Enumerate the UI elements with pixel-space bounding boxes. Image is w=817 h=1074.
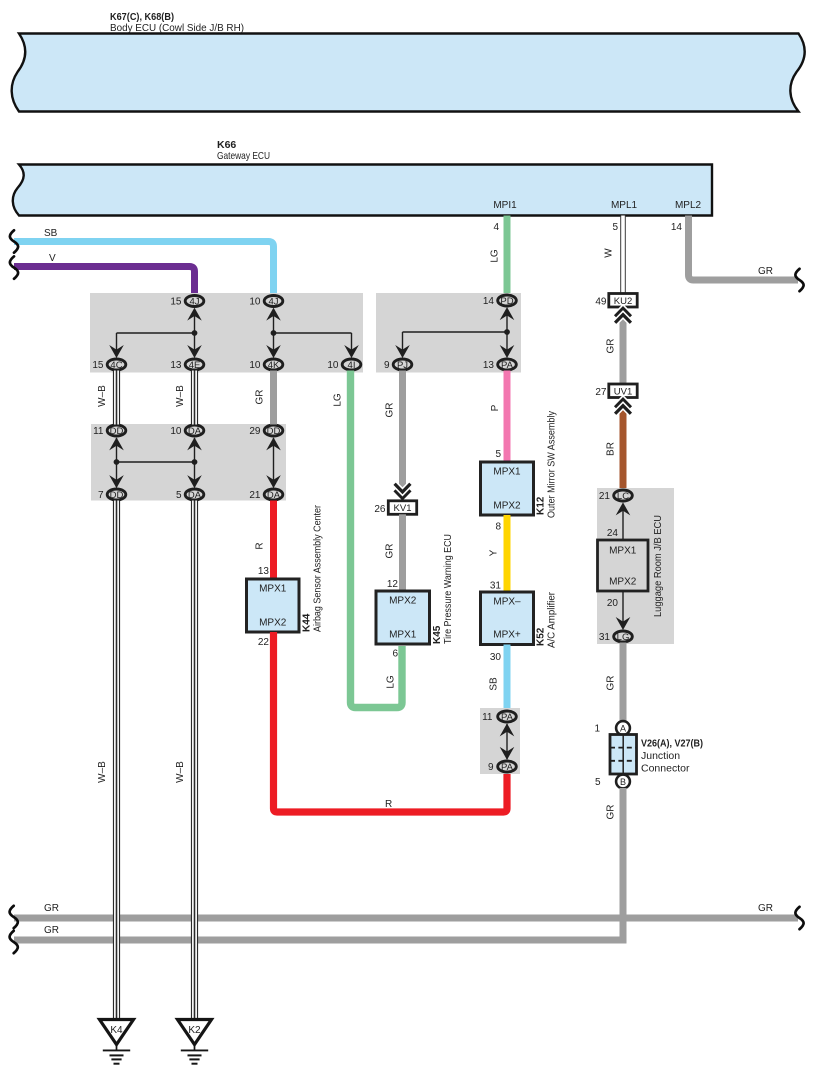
- svg-text:MPX1: MPX1: [609, 546, 637, 557]
- svg-text:MPX+: MPX+: [493, 630, 521, 641]
- connector DA pin 5: [176, 489, 204, 501]
- svg-text:MPX2: MPX2: [389, 596, 417, 607]
- svg-text:1: 1: [594, 724, 600, 735]
- svg-text:22: 22: [258, 637, 270, 648]
- wire BR UV1 to LC(21): [606, 401, 627, 489]
- svg-text:5: 5: [595, 777, 601, 788]
- svg-text:W–B: W–B: [97, 761, 108, 783]
- svg-text:SB: SB: [44, 228, 58, 239]
- svg-text:11: 11: [482, 712, 493, 723]
- svg-text:GR: GR: [606, 805, 617, 820]
- wire GR bus 1: [10, 903, 804, 929]
- svg-text:PD: PD: [500, 296, 513, 307]
- svg-text:Connector: Connector: [641, 763, 690, 775]
- wire W-B DD(7) to ground K4: [97, 501, 120, 1021]
- panel Luggage Room J/B ECU: [597, 488, 674, 644]
- wire GR from MPL2 pin 14 to right break: [671, 216, 804, 292]
- svg-text:GR: GR: [606, 339, 617, 354]
- shield chevron below UV1: [615, 399, 631, 414]
- svg-text:4J: 4J: [268, 296, 278, 307]
- panel1 internal wiring right cluster: [266, 308, 359, 358]
- svg-text:GR: GR: [255, 390, 266, 405]
- wire GR LG(31) to junction connector A: [606, 643, 627, 723]
- svg-text:LG: LG: [490, 249, 501, 263]
- svg-text:DD: DD: [267, 426, 281, 437]
- wire W-B DA(5) to ground K2: [175, 501, 198, 1021]
- svg-text:10: 10: [170, 426, 182, 437]
- junction block panel 3: [376, 293, 521, 373]
- svg-text:MPX1: MPX1: [389, 630, 417, 641]
- svg-text:PA: PA: [501, 762, 514, 773]
- ECU K52 A/C Amplifier: [481, 591, 558, 648]
- svg-text:11: 11: [93, 426, 104, 437]
- svg-text:MPX2: MPX2: [259, 618, 287, 629]
- connector DD pin 29: [249, 425, 282, 437]
- junction block panel 2: [91, 424, 286, 501]
- svg-text:31: 31: [599, 632, 611, 643]
- svg-text:P: P: [490, 404, 501, 411]
- svg-text:MPX1: MPX1: [493, 467, 521, 478]
- svg-text:21: 21: [249, 490, 261, 501]
- svg-text:GR: GR: [758, 266, 773, 277]
- svg-text:13: 13: [483, 360, 495, 371]
- wire R DA(21) to K44 pin 13: [255, 501, 278, 579]
- svg-text:20: 20: [607, 598, 619, 609]
- connector KV1 pin 26: [374, 501, 416, 515]
- svg-text:MPX–: MPX–: [493, 597, 521, 608]
- connector 4C pin 15: [92, 359, 125, 371]
- svg-text:LG: LG: [617, 632, 630, 643]
- svg-text:4I: 4I: [348, 360, 356, 371]
- wire R K44 pin 22 to PA(9): [258, 632, 507, 812]
- panel3 internal wiring: [395, 307, 514, 358]
- connector DA pin 10: [170, 425, 203, 437]
- shield chevron above KV1: [395, 484, 411, 499]
- svg-text:DA: DA: [188, 426, 202, 437]
- svg-text:W–B: W–B: [175, 761, 186, 783]
- svg-text:V26(A), V27(B): V26(A), V27(B): [641, 738, 703, 750]
- wire LG from MPI1 pin 4 to PD: [490, 216, 511, 296]
- junction block panel PA: [480, 708, 520, 774]
- wire GR bus 2: [10, 925, 627, 953]
- connector PA pin 11: [482, 711, 516, 723]
- svg-text:K2: K2: [188, 1025, 201, 1036]
- svg-text:Luggage Room J/B ECU: Luggage Room J/B ECU: [653, 515, 664, 617]
- svg-text:12: 12: [387, 579, 399, 590]
- svg-text:R: R: [255, 542, 266, 549]
- svg-text:10: 10: [327, 360, 339, 371]
- ECU K66 Gateway ECU box: [13, 139, 712, 216]
- svg-text:DA: DA: [188, 490, 202, 501]
- svg-text:K52: K52: [536, 627, 547, 646]
- svg-text:13: 13: [258, 566, 270, 577]
- wire Y K12 pin 8 to K52 pin 31: [489, 515, 511, 592]
- ECU K45 Tire Pressure Warning ECU: [376, 534, 454, 644]
- svg-text:4E: 4E: [189, 360, 201, 371]
- svg-text:14: 14: [483, 296, 495, 307]
- svg-text:K12: K12: [536, 496, 547, 515]
- svg-text:Y: Y: [489, 549, 500, 556]
- connector PJ pin 9: [384, 359, 412, 371]
- svg-text:GR: GR: [385, 403, 396, 418]
- connector DA pin 21: [249, 489, 282, 501]
- connector 4K pin 10: [249, 359, 282, 371]
- svg-text:W–B: W–B: [97, 385, 108, 407]
- svg-text:DA: DA: [267, 490, 281, 501]
- junction connector V26/V27: [594, 721, 703, 788]
- svg-text:BR: BR: [606, 442, 617, 456]
- connector LC pin 21: [599, 490, 632, 502]
- svg-text:MPX2: MPX2: [609, 577, 637, 588]
- ECU K67/K68 Body ECU box: [12, 11, 805, 112]
- svg-text:LG: LG: [386, 675, 397, 689]
- svg-text:MPX1: MPX1: [259, 584, 287, 595]
- svg-text:MPL2: MPL2: [675, 200, 702, 211]
- svg-text:8: 8: [495, 522, 501, 533]
- panel2 internal wiring left cluster: [109, 437, 202, 488]
- panel1 internal wiring left cluster: [109, 308, 202, 358]
- svg-text:4C: 4C: [110, 360, 122, 371]
- svg-text:5: 5: [176, 490, 182, 501]
- svg-text:24: 24: [607, 528, 619, 539]
- connector PA pin 9: [488, 761, 516, 773]
- svg-text:GR: GR: [44, 903, 59, 914]
- svg-text:7: 7: [98, 490, 104, 501]
- connector PD pin 14: [483, 295, 516, 307]
- svg-text:26: 26: [374, 504, 386, 515]
- wire W from MPL1 pin 5 to KU2: [604, 216, 626, 294]
- svg-text:Airbag Sensor Assembly Center: Airbag Sensor Assembly Center: [313, 504, 324, 632]
- wire GR junction connector B to bottom bus: [606, 788, 627, 944]
- svg-text:10: 10: [249, 297, 261, 308]
- svg-text:B: B: [620, 777, 626, 787]
- svg-text:GR: GR: [606, 676, 617, 691]
- svg-text:DD: DD: [110, 426, 124, 437]
- svg-text:4K: 4K: [268, 360, 280, 371]
- svg-text:A/C Amplifier: A/C Amplifier: [547, 591, 558, 648]
- svg-text:GR: GR: [758, 903, 773, 914]
- svg-text:W: W: [604, 248, 615, 258]
- luggage MPX1/MPX2 box: [598, 540, 649, 591]
- wire GR KU2 to UV1: [606, 311, 627, 384]
- panel PA internal wiring: [500, 723, 515, 760]
- svg-text:MPX2: MPX2: [493, 501, 521, 512]
- ground K2: [178, 1020, 212, 1064]
- svg-text:K4: K4: [110, 1025, 123, 1036]
- svg-text:K45: K45: [432, 625, 443, 644]
- svg-text:SB: SB: [489, 677, 500, 691]
- svg-text:30: 30: [490, 652, 502, 663]
- junction block panel 1: [90, 293, 363, 373]
- svg-text:13: 13: [170, 360, 182, 371]
- svg-text:15: 15: [170, 297, 182, 308]
- svg-text:29: 29: [249, 426, 261, 437]
- wire V from left break to 4J(15): [10, 253, 195, 296]
- wire P PA(13) to K12 pin 5: [490, 371, 511, 463]
- svg-text:49: 49: [595, 297, 607, 308]
- svg-text:DD: DD: [110, 490, 124, 501]
- svg-text:14: 14: [671, 222, 683, 233]
- luggage internal wire LC to MPX box: [607, 502, 630, 540]
- connector PA pin 13: [483, 359, 516, 371]
- ECU K12 Outer Mirror SW Assembly: [481, 411, 558, 518]
- panel2 internal wiring right link: [266, 437, 281, 488]
- connector KU2 pin 49: [595, 294, 637, 308]
- svg-text:Gateway ECU: Gateway ECU: [217, 150, 270, 162]
- svg-text:PJ: PJ: [397, 360, 408, 371]
- connector DD pin 11: [93, 425, 126, 437]
- svg-text:4: 4: [493, 222, 499, 233]
- ground K4: [100, 1020, 134, 1064]
- svg-text:31: 31: [490, 581, 502, 592]
- svg-text:9: 9: [384, 360, 390, 371]
- svg-text:5: 5: [612, 222, 618, 233]
- connector 4I pin 10: [327, 359, 360, 371]
- svg-text:15: 15: [92, 360, 104, 371]
- wire GR KV1 to K45 pin 12: [385, 514, 407, 592]
- svg-text:R: R: [385, 799, 392, 810]
- svg-text:GR: GR: [44, 925, 59, 936]
- svg-text:MPI1: MPI1: [493, 200, 517, 211]
- wire GR PJ(9) to KV1: [385, 371, 407, 501]
- wire W-B 4C to DD(11): [97, 371, 120, 425]
- svg-text:PA: PA: [501, 360, 514, 371]
- svg-text:27: 27: [595, 387, 607, 398]
- shield chevron below KU2: [615, 308, 631, 323]
- ECU K44 Airbag Sensor Assembly Center: [247, 504, 324, 632]
- wire SB from left break to 4J(10): [10, 228, 274, 296]
- wire GR 4K to DD(29): [255, 371, 278, 425]
- svg-text:Tire Pressure Warning ECU: Tire Pressure Warning ECU: [443, 534, 454, 644]
- svg-text:10: 10: [249, 360, 261, 371]
- svg-text:9: 9: [488, 762, 494, 773]
- connector LG pin 31: [599, 631, 632, 643]
- svg-text:5: 5: [495, 449, 501, 460]
- svg-text:MPL1: MPL1: [611, 200, 638, 211]
- connector 4J pin 10: [249, 296, 282, 308]
- svg-text:Junction: Junction: [641, 750, 680, 762]
- connector DD pin 7: [98, 489, 126, 501]
- svg-text:21: 21: [599, 491, 611, 502]
- svg-text:GR: GR: [385, 544, 396, 559]
- svg-text:KV1: KV1: [394, 503, 412, 514]
- connector 4J pin 15: [170, 296, 203, 308]
- connector 4E pin 13: [170, 359, 203, 371]
- svg-text:W–B: W–B: [175, 385, 186, 407]
- wire W-B 4E to DA(10): [175, 371, 198, 425]
- svg-text:PA: PA: [501, 712, 514, 723]
- wire LG 4I to K45 pin 6: [333, 371, 403, 708]
- svg-text:Body ECU (Cowl Side J/B RH): Body ECU (Cowl Side J/B RH): [110, 22, 244, 34]
- svg-text:LG: LG: [333, 393, 344, 407]
- wire SB K52 pin 30 to PA(11): [489, 645, 511, 711]
- svg-text:K44: K44: [302, 613, 313, 632]
- svg-text:LC: LC: [617, 491, 629, 502]
- svg-text:4J: 4J: [189, 296, 199, 307]
- luggage internal wire MPX box to LG: [607, 591, 630, 630]
- svg-text:6: 6: [392, 649, 398, 660]
- svg-text:A: A: [620, 724, 626, 734]
- svg-text:V: V: [49, 253, 56, 264]
- connector UV1 pin 27: [595, 384, 637, 398]
- svg-text:Outer Mirror SW Assembly: Outer Mirror SW Assembly: [547, 411, 558, 518]
